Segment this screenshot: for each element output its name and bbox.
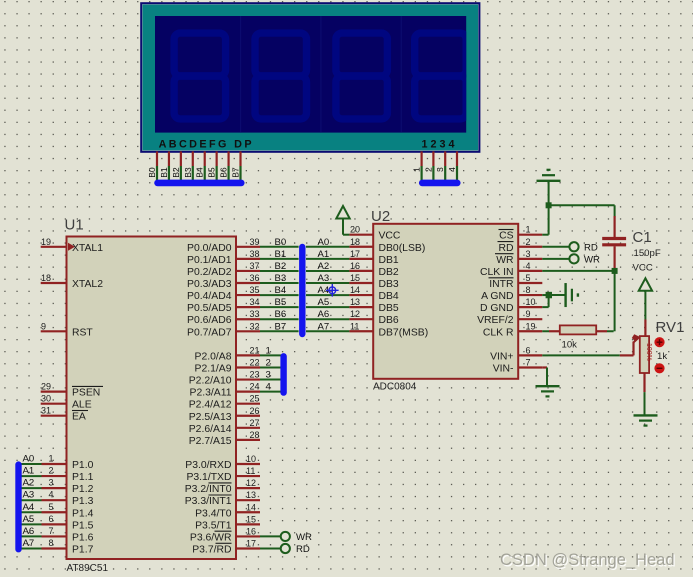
U1 pin 11 P3.1 stub — [236, 466, 260, 476]
svg-text:19: 19 — [526, 321, 536, 331]
display segment pin wire B5 — [207, 151, 217, 181]
svg-text:27: 27 — [249, 418, 259, 428]
svg-text:23: 23 — [249, 370, 259, 380]
svg-text:11: 11 — [350, 321, 359, 331]
display digit select pin wire 1 — [412, 151, 422, 181]
svg-text:B0: B0 — [275, 237, 287, 248]
svg-text:WR: WR — [296, 532, 312, 543]
ground under RV1 — [634, 415, 658, 425]
7-segment display module (4-digit) — [141, 3, 479, 152]
svg-text:31: 31 — [41, 406, 51, 416]
svg-text:P1.3: P1.3 — [72, 496, 94, 507]
svg-text:P3.4/T0: P3.4/T0 — [195, 508, 232, 519]
svg-text:3: 3 — [49, 478, 54, 488]
svg-text:VREF/2: VREF/2 — [477, 315, 514, 326]
U1 pin 35 P0.4 stub and wire B4 to bus — [236, 285, 299, 296]
U1 pin 27 P2.6 stub — [236, 418, 260, 428]
svg-text:24: 24 — [249, 382, 259, 392]
ground under VIN- — [536, 386, 560, 396]
wire RV1 bottom to ground — [644, 392, 646, 415]
svg-text:U1: U1 — [65, 217, 84, 234]
U1 pin 8 P1.7 stub and wire A7 to bus — [21, 538, 66, 549]
svg-text:B1: B1 — [159, 167, 169, 178]
svg-text:B3: B3 — [183, 167, 193, 178]
U1 pin 14 P3.4 stub — [236, 502, 260, 512]
svg-text:14: 14 — [246, 502, 256, 512]
U1 pin 32 P0.7 stub and wire B7 to bus — [236, 321, 299, 332]
display digit 4 — [415, 33, 467, 119]
svg-text:A7: A7 — [23, 538, 35, 549]
svg-text:D GND: D GND — [480, 303, 513, 314]
U1 pin 24 P2.3 stub — [236, 382, 281, 393]
svg-text:34: 34 — [249, 297, 259, 307]
U1 pin 37 P0.2 stub and wire B2 to bus — [236, 261, 299, 272]
U2 pin 6 VIN+ stub — [518, 345, 542, 355]
display digit 1 — [174, 33, 226, 119]
U2 right pin name labels — [477, 230, 514, 375]
svg-text:1: 1 — [526, 225, 531, 235]
svg-text:15: 15 — [246, 514, 256, 524]
svg-text:38: 38 — [249, 249, 259, 259]
wire A2 from bus to U2 DB2 — [306, 261, 349, 272]
U1 pin 13 P3.3 stub — [236, 490, 260, 500]
svg-text:PSEN: PSEN — [72, 388, 100, 399]
svg-text:6: 6 — [49, 514, 54, 524]
power terminal VCC above RV1 — [633, 263, 653, 320]
U1 pin 4 P1.3 stub and wire A3 to bus — [21, 490, 66, 501]
U1 left pin name labels — [72, 243, 103, 423]
svg-text:P3.6/WR: P3.6/WR — [190, 532, 232, 543]
svg-text:WR: WR — [496, 255, 514, 266]
display segment pin wire B1 — [159, 151, 169, 181]
svg-text:P1.1: P1.1 — [72, 472, 94, 483]
svg-text:19: 19 — [41, 237, 51, 247]
svg-text:39: 39 — [249, 237, 259, 247]
ADC U2 ADC0804 body — [373, 224, 518, 379]
display segment pin wire B7 — [231, 151, 241, 181]
svg-text:32: 32 — [249, 321, 259, 331]
svg-text:6: 6 — [526, 345, 531, 355]
svg-text:4: 4 — [49, 490, 54, 500]
display segment pin wire B6 — [219, 151, 229, 181]
U2 pin 11 stub — [349, 321, 373, 331]
svg-text:P0.5/AD5: P0.5/AD5 — [187, 303, 232, 314]
U1 pin 39 P0.0 stub and wire B0 to bus — [236, 237, 299, 248]
svg-text:P3.1/TXD: P3.1/TXD — [186, 472, 231, 483]
resistor 10k on CLK R — [542, 325, 613, 334]
svg-text:14: 14 — [350, 285, 360, 295]
svg-text:VCC: VCC — [633, 263, 653, 274]
svg-text:9: 9 — [41, 321, 46, 331]
svg-text:ALE: ALE — [72, 400, 92, 411]
display pin name labels 1 2 3 4 — [422, 138, 458, 150]
svg-text:B3: B3 — [275, 273, 287, 284]
svg-text:4: 4 — [266, 382, 272, 393]
U1 pin 3 P1.2 stub and wire A2 to bus — [21, 478, 66, 489]
svg-text:4: 4 — [447, 167, 457, 172]
U1 pin 1 P1.0 stub and wire A0 to bus — [21, 454, 66, 465]
U1 pin 10 P3.0 stub — [236, 454, 260, 464]
U1 port P3 pin name labels — [185, 460, 232, 555]
svg-text:29: 29 — [41, 382, 51, 392]
display digit select pin wire 2 — [423, 151, 433, 181]
U1 pin 30 ALE stub — [41, 394, 67, 404]
svg-text:2: 2 — [266, 357, 271, 368]
wire AGND/DGND net with junction — [542, 292, 565, 307]
svg-text:30: 30 — [41, 394, 51, 404]
svg-text:20: 20 — [350, 225, 360, 235]
U1 pin 15 P3.5 stub — [236, 514, 260, 524]
svg-text:11: 11 — [246, 466, 255, 476]
U1 pin 19 XTAL1 stub — [41, 237, 67, 247]
svg-text:1: 1 — [412, 167, 422, 172]
U1 pin 25 P2.4 stub — [236, 394, 260, 404]
svg-text:DB1: DB1 — [379, 255, 399, 266]
U1 port P1 pin name labels — [72, 460, 94, 555]
svg-text:EA: EA — [72, 412, 86, 423]
U2 pin 15 stub — [349, 273, 373, 283]
U1 pin 34 P0.5 stub and wire B5 to bus — [236, 297, 299, 308]
wire VIN- net to ground — [542, 368, 547, 386]
svg-text:26: 26 — [249, 406, 259, 416]
display digit select pin wire 3 — [435, 151, 445, 181]
U1 pin 17 P3.7 stub — [236, 538, 260, 548]
U2 pin 8 stub — [518, 285, 542, 295]
svg-text:B2: B2 — [275, 261, 287, 272]
svg-text:A6: A6 — [23, 526, 35, 537]
display digit-select bus bar — [422, 180, 457, 187]
wire CS net: pin1 up to ground and right to C1 — [542, 182, 614, 235]
svg-text:DB3: DB3 — [379, 279, 399, 290]
RV1 decrement button — [654, 363, 664, 373]
svg-text:B4: B4 — [195, 167, 205, 178]
U1 pin 29 PSEN stub — [41, 382, 67, 392]
svg-text:B2: B2 — [171, 167, 181, 178]
display digit 2 — [255, 33, 307, 119]
display digit select pin wire 4 — [447, 151, 457, 181]
svg-text:P2.6/A14: P2.6/A14 — [189, 424, 232, 435]
microcontroller U1 AT89C51 body — [67, 237, 237, 560]
svg-text:18: 18 — [350, 237, 360, 247]
capacitor C1 — [602, 216, 626, 269]
svg-text:A6: A6 — [318, 309, 330, 320]
U1 port P2 pin name labels — [189, 351, 232, 446]
U1 pin 7 P1.6 stub and wire A6 to bus — [21, 526, 66, 537]
bus on U1 P2.0-P2.3 — [280, 356, 286, 392]
svg-text:P1.6: P1.6 — [72, 532, 94, 543]
U2 pin 2 stub — [518, 237, 542, 247]
svg-text:28: 28 — [249, 430, 259, 440]
svg-text:B6: B6 — [219, 167, 229, 178]
svg-text:33: 33 — [249, 309, 259, 319]
U1 pin 2 P1.1 stub and wire A1 to bus — [21, 466, 66, 477]
svg-text:35: 35 — [249, 285, 259, 295]
U1 pin 33 P0.6 stub and wire B6 to bus — [236, 309, 299, 320]
svg-text:12: 12 — [350, 309, 360, 319]
wire CLK IN net: pin4 to C1 bottom node — [542, 268, 617, 331]
ground G1 above U2 (CS net) — [537, 170, 561, 181]
U2 pin 1 stub — [518, 225, 542, 235]
svg-text:P0.0/AD0: P0.0/AD0 — [187, 243, 232, 254]
svg-text:21: 21 — [249, 345, 259, 355]
svg-text:100%: 100% — [645, 343, 652, 361]
potentiometer RV1 — [632, 320, 652, 393]
svg-text:A3: A3 — [23, 490, 35, 501]
U1 pin 28 P2.7 stub — [236, 430, 260, 440]
svg-text:P0.1/AD1: P0.1/AD1 — [187, 255, 232, 266]
U1 pin 31 EA stub — [41, 406, 67, 416]
svg-text:C1: C1 — [633, 229, 652, 246]
svg-text:3: 3 — [526, 249, 531, 259]
U2 pin 7 VIN- stub — [518, 358, 542, 368]
U1 pin 22 P2.1 stub — [236, 357, 281, 368]
wire VIN+ net to RV1 wiper — [542, 354, 633, 356]
svg-text:16: 16 — [350, 261, 360, 271]
U1 pin 18 XTAL2 stub — [41, 273, 67, 283]
wire A0 from bus to U2 DB0 — [306, 237, 349, 248]
svg-text:P2.5/A13: P2.5/A13 — [189, 412, 232, 423]
svg-text:DB6: DB6 — [379, 315, 399, 326]
U2 pin 3 stub — [518, 249, 542, 259]
U2 pin 20 stub — [349, 225, 373, 235]
svg-text:2: 2 — [423, 167, 433, 172]
U2 pin 14 stub — [349, 285, 373, 295]
svg-text:P2.2/A10: P2.2/A10 — [189, 376, 232, 387]
svg-text:P3.5/T1: P3.5/T1 — [195, 520, 232, 531]
wire A1 from bus to U2 DB1 — [306, 249, 349, 260]
svg-text:RV1: RV1 — [656, 319, 685, 336]
U1 pin 36 P0.3 stub and wire B3 to bus — [236, 273, 299, 284]
U1 pin 26 P2.5 stub — [236, 406, 260, 416]
svg-text:7: 7 — [526, 358, 531, 368]
svg-text:RST: RST — [72, 327, 93, 338]
svg-text:7: 7 — [49, 526, 54, 536]
U1 pin 12 P3.2 stub — [236, 478, 260, 488]
svg-text:1234: 1234 — [422, 138, 458, 150]
display segment bus bar — [158, 180, 242, 187]
U2 pin 19 stub — [518, 321, 542, 331]
svg-text:P1.4: P1.4 — [72, 508, 94, 519]
svg-text:DB0(LSB): DB0(LSB) — [379, 243, 426, 254]
svg-text:A4: A4 — [23, 502, 35, 513]
svg-text:P1.7: P1.7 — [72, 544, 94, 555]
svg-text:A GND: A GND — [481, 291, 513, 302]
U1 port P0 pin name labels — [187, 243, 232, 338]
svg-text:15: 15 — [350, 273, 360, 283]
svg-text:P0.4/AD4: P0.4/AD4 — [187, 291, 232, 302]
svg-text:A2: A2 — [23, 478, 35, 489]
U2 pin 4 stub — [518, 261, 542, 271]
svg-text:1: 1 — [49, 454, 54, 464]
svg-text:P2.7/A15: P2.7/A15 — [189, 436, 232, 447]
U1 pin 21 P2.0 stub — [236, 345, 281, 356]
svg-text:RD: RD — [296, 544, 310, 555]
U1 pin 23 P2.2 stub — [236, 370, 281, 381]
wire P3.6 to WR terminal — [260, 532, 312, 543]
bus on U1 P1 port — [15, 465, 21, 550]
svg-text:CSDN @Strange_Head: CSDN @Strange_Head — [500, 551, 675, 569]
svg-text:CLK R: CLK R — [483, 327, 514, 338]
wire A4 from bus to U2 DB4 — [306, 285, 349, 296]
svg-text:A0: A0 — [23, 454, 35, 465]
svg-text:B4: B4 — [275, 285, 287, 296]
svg-text:16: 16 — [246, 526, 256, 536]
display segment pin wire B3 — [183, 151, 193, 181]
svg-text:RD: RD — [584, 242, 598, 253]
U2 pin 17 stub — [349, 249, 373, 259]
svg-text:P2.1/A9: P2.1/A9 — [195, 363, 232, 374]
svg-text:P2.3/A11: P2.3/A11 — [190, 388, 232, 399]
svg-text:VIN+: VIN+ — [490, 351, 513, 362]
U2 pin 12 stub — [349, 309, 373, 319]
U1 XTAL1 clock marker — [68, 243, 75, 251]
svg-text:10: 10 — [246, 454, 256, 464]
svg-text:B5: B5 — [207, 167, 217, 178]
U1 pin 16 P3.6 stub — [236, 526, 260, 536]
svg-text:A1: A1 — [318, 249, 330, 260]
display pin name labels ABCDEFG DP — [159, 138, 254, 150]
svg-text:INTR: INTR — [489, 279, 514, 290]
svg-text:VIN-: VIN- — [493, 364, 514, 375]
U1 pin 6 P1.5 stub and wire A5 to bus — [21, 514, 66, 525]
svg-text:A0: A0 — [318, 237, 330, 248]
svg-text:B0: B0 — [147, 167, 157, 178]
svg-text:P0.3/AD3: P0.3/AD3 — [187, 279, 232, 290]
svg-text:CS: CS — [499, 231, 514, 242]
wire WR: U2 pin3 to terminal — [542, 254, 600, 265]
svg-text:DB7(MSB): DB7(MSB) — [379, 327, 429, 338]
svg-text:8: 8 — [526, 285, 531, 295]
U1 pin 9 RST stub — [41, 321, 67, 331]
svg-text:A3: A3 — [318, 273, 330, 284]
svg-text:P1.2: P1.2 — [72, 484, 94, 495]
svg-text:17: 17 — [350, 249, 360, 259]
U2 pin 9 stub — [518, 309, 542, 319]
svg-text:P2.4/A12: P2.4/A12 — [189, 400, 232, 411]
display digit 3 — [336, 33, 388, 119]
svg-text:P3.2/INT0: P3.2/INT0 — [185, 484, 232, 495]
bus between U1 P0 and U2 DB — [299, 247, 305, 334]
svg-text:WR: WR — [584, 254, 600, 265]
svg-text:CLK IN: CLK IN — [480, 267, 514, 278]
svg-text:P0.2/AD2: P0.2/AD2 — [187, 267, 232, 278]
U2 pin 16 stub — [349, 261, 373, 271]
svg-text:12: 12 — [246, 478, 256, 488]
svg-text:P0.6/AD6: P0.6/AD6 — [187, 315, 232, 326]
svg-text:2: 2 — [49, 466, 54, 476]
watermark CSDN @Strange_Head — [500, 551, 676, 570]
svg-text:XTAL1: XTAL1 — [72, 243, 103, 254]
svg-text:A5: A5 — [23, 514, 35, 525]
display segment pin wire B0 — [147, 151, 157, 181]
ground terminal (sideways) at AGND/DGND — [566, 283, 578, 307]
svg-text:A2: A2 — [318, 261, 330, 272]
svg-text:B6: B6 — [275, 309, 287, 320]
U2 pin 13 stub — [349, 297, 373, 307]
svg-text:17: 17 — [246, 538, 256, 548]
U1 pin 5 P1.4 stub and wire A4 to bus — [21, 502, 66, 513]
wire A3 from bus to U2 DB3 — [306, 273, 349, 284]
svg-text:ABCDEFG DP: ABCDEFG DP — [159, 138, 254, 150]
svg-text:P1.5: P1.5 — [72, 520, 94, 531]
svg-text:A5: A5 — [318, 297, 330, 308]
wire A7 from bus to U2 DB7 — [306, 321, 349, 332]
svg-text:13: 13 — [246, 490, 256, 500]
svg-text:1: 1 — [266, 345, 271, 356]
svg-text:B1: B1 — [275, 249, 287, 260]
svg-text:3: 3 — [266, 370, 271, 381]
svg-text:A1: A1 — [23, 466, 35, 477]
svg-text:RD: RD — [498, 243, 513, 254]
svg-text:25: 25 — [249, 394, 259, 404]
wire A6 from bus to U2 DB6 — [306, 309, 349, 320]
svg-text:A7: A7 — [318, 321, 330, 332]
svg-text:18: 18 — [41, 273, 51, 283]
svg-text:B7: B7 — [275, 321, 287, 332]
svg-text:13: 13 — [350, 297, 360, 307]
wire RD: U2 pin2 to terminal — [542, 242, 598, 253]
svg-text:P2.0/A8: P2.0/A8 — [195, 351, 232, 362]
svg-text:U2: U2 — [371, 208, 390, 225]
svg-text:22: 22 — [249, 357, 259, 367]
svg-text:10k: 10k — [562, 340, 578, 351]
svg-text:B7: B7 — [231, 167, 241, 178]
svg-text:10: 10 — [526, 297, 536, 307]
svg-text:B5: B5 — [275, 297, 287, 308]
origin marker cursor near A4 label — [326, 284, 339, 297]
svg-text:P1.0: P1.0 — [72, 460, 94, 471]
svg-text:1k: 1k — [657, 351, 667, 362]
svg-text:5: 5 — [526, 273, 531, 283]
wire A5 from bus to U2 DB5 — [306, 297, 349, 308]
svg-text:VCC: VCC — [379, 231, 401, 242]
svg-text:150pF: 150pF — [634, 248, 661, 259]
svg-text:P3.7/RD: P3.7/RD — [192, 544, 231, 555]
svg-text:AT89C51: AT89C51 — [67, 563, 109, 574]
svg-text:36: 36 — [249, 273, 259, 283]
svg-text:5: 5 — [49, 502, 54, 512]
wire P3.7 to RD terminal — [260, 544, 310, 555]
display segment pin wire B4 — [195, 151, 205, 181]
svg-text:DB2: DB2 — [379, 267, 399, 278]
U1 pin 38 P0.1 stub and wire B1 to bus — [236, 249, 299, 260]
svg-text:P3.3/INT1: P3.3/INT1 — [185, 496, 232, 507]
svg-text:2: 2 — [526, 237, 531, 247]
svg-text:P0.7/AD7: P0.7/AD7 — [187, 327, 232, 338]
RV1 increment button — [654, 337, 664, 347]
svg-text:DB4: DB4 — [379, 291, 399, 302]
power terminal VCC at U2 pin 20 — [336, 206, 349, 235]
U2 pin 10 stub — [518, 297, 542, 307]
display segment pin wire B2 — [171, 151, 181, 181]
svg-text:XTAL2: XTAL2 — [72, 279, 103, 290]
U2 pin 18 stub — [349, 237, 373, 247]
U2 left pin name labels — [379, 231, 429, 339]
U2 pin 5 stub — [518, 273, 542, 283]
svg-text:P3.0/RXD: P3.0/RXD — [185, 460, 231, 471]
svg-text:9: 9 — [526, 309, 531, 319]
svg-text:8: 8 — [49, 538, 54, 548]
svg-text:37: 37 — [249, 261, 259, 271]
svg-text:3: 3 — [435, 167, 445, 172]
svg-text:4: 4 — [526, 261, 531, 271]
svg-text:DB5: DB5 — [379, 303, 399, 314]
svg-text:ADC0804: ADC0804 — [373, 382, 417, 393]
